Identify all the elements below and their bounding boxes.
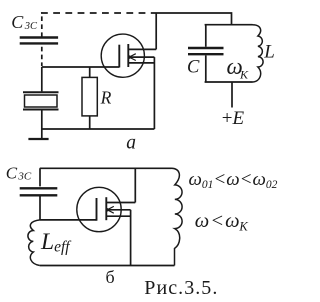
svg-text:+E: +E	[222, 108, 245, 129]
svg-text:C: C	[187, 58, 200, 78]
svg-text:Рис.3.5.: Рис.3.5.	[144, 277, 218, 299]
svg-text:ω01<ω<ω02: ω01<ω<ω02	[189, 169, 278, 191]
svg-text:L: L	[263, 41, 275, 62]
svg-text:R: R	[100, 87, 112, 107]
svg-text:а: а	[126, 132, 136, 153]
svg-text:б: б	[106, 267, 115, 287]
